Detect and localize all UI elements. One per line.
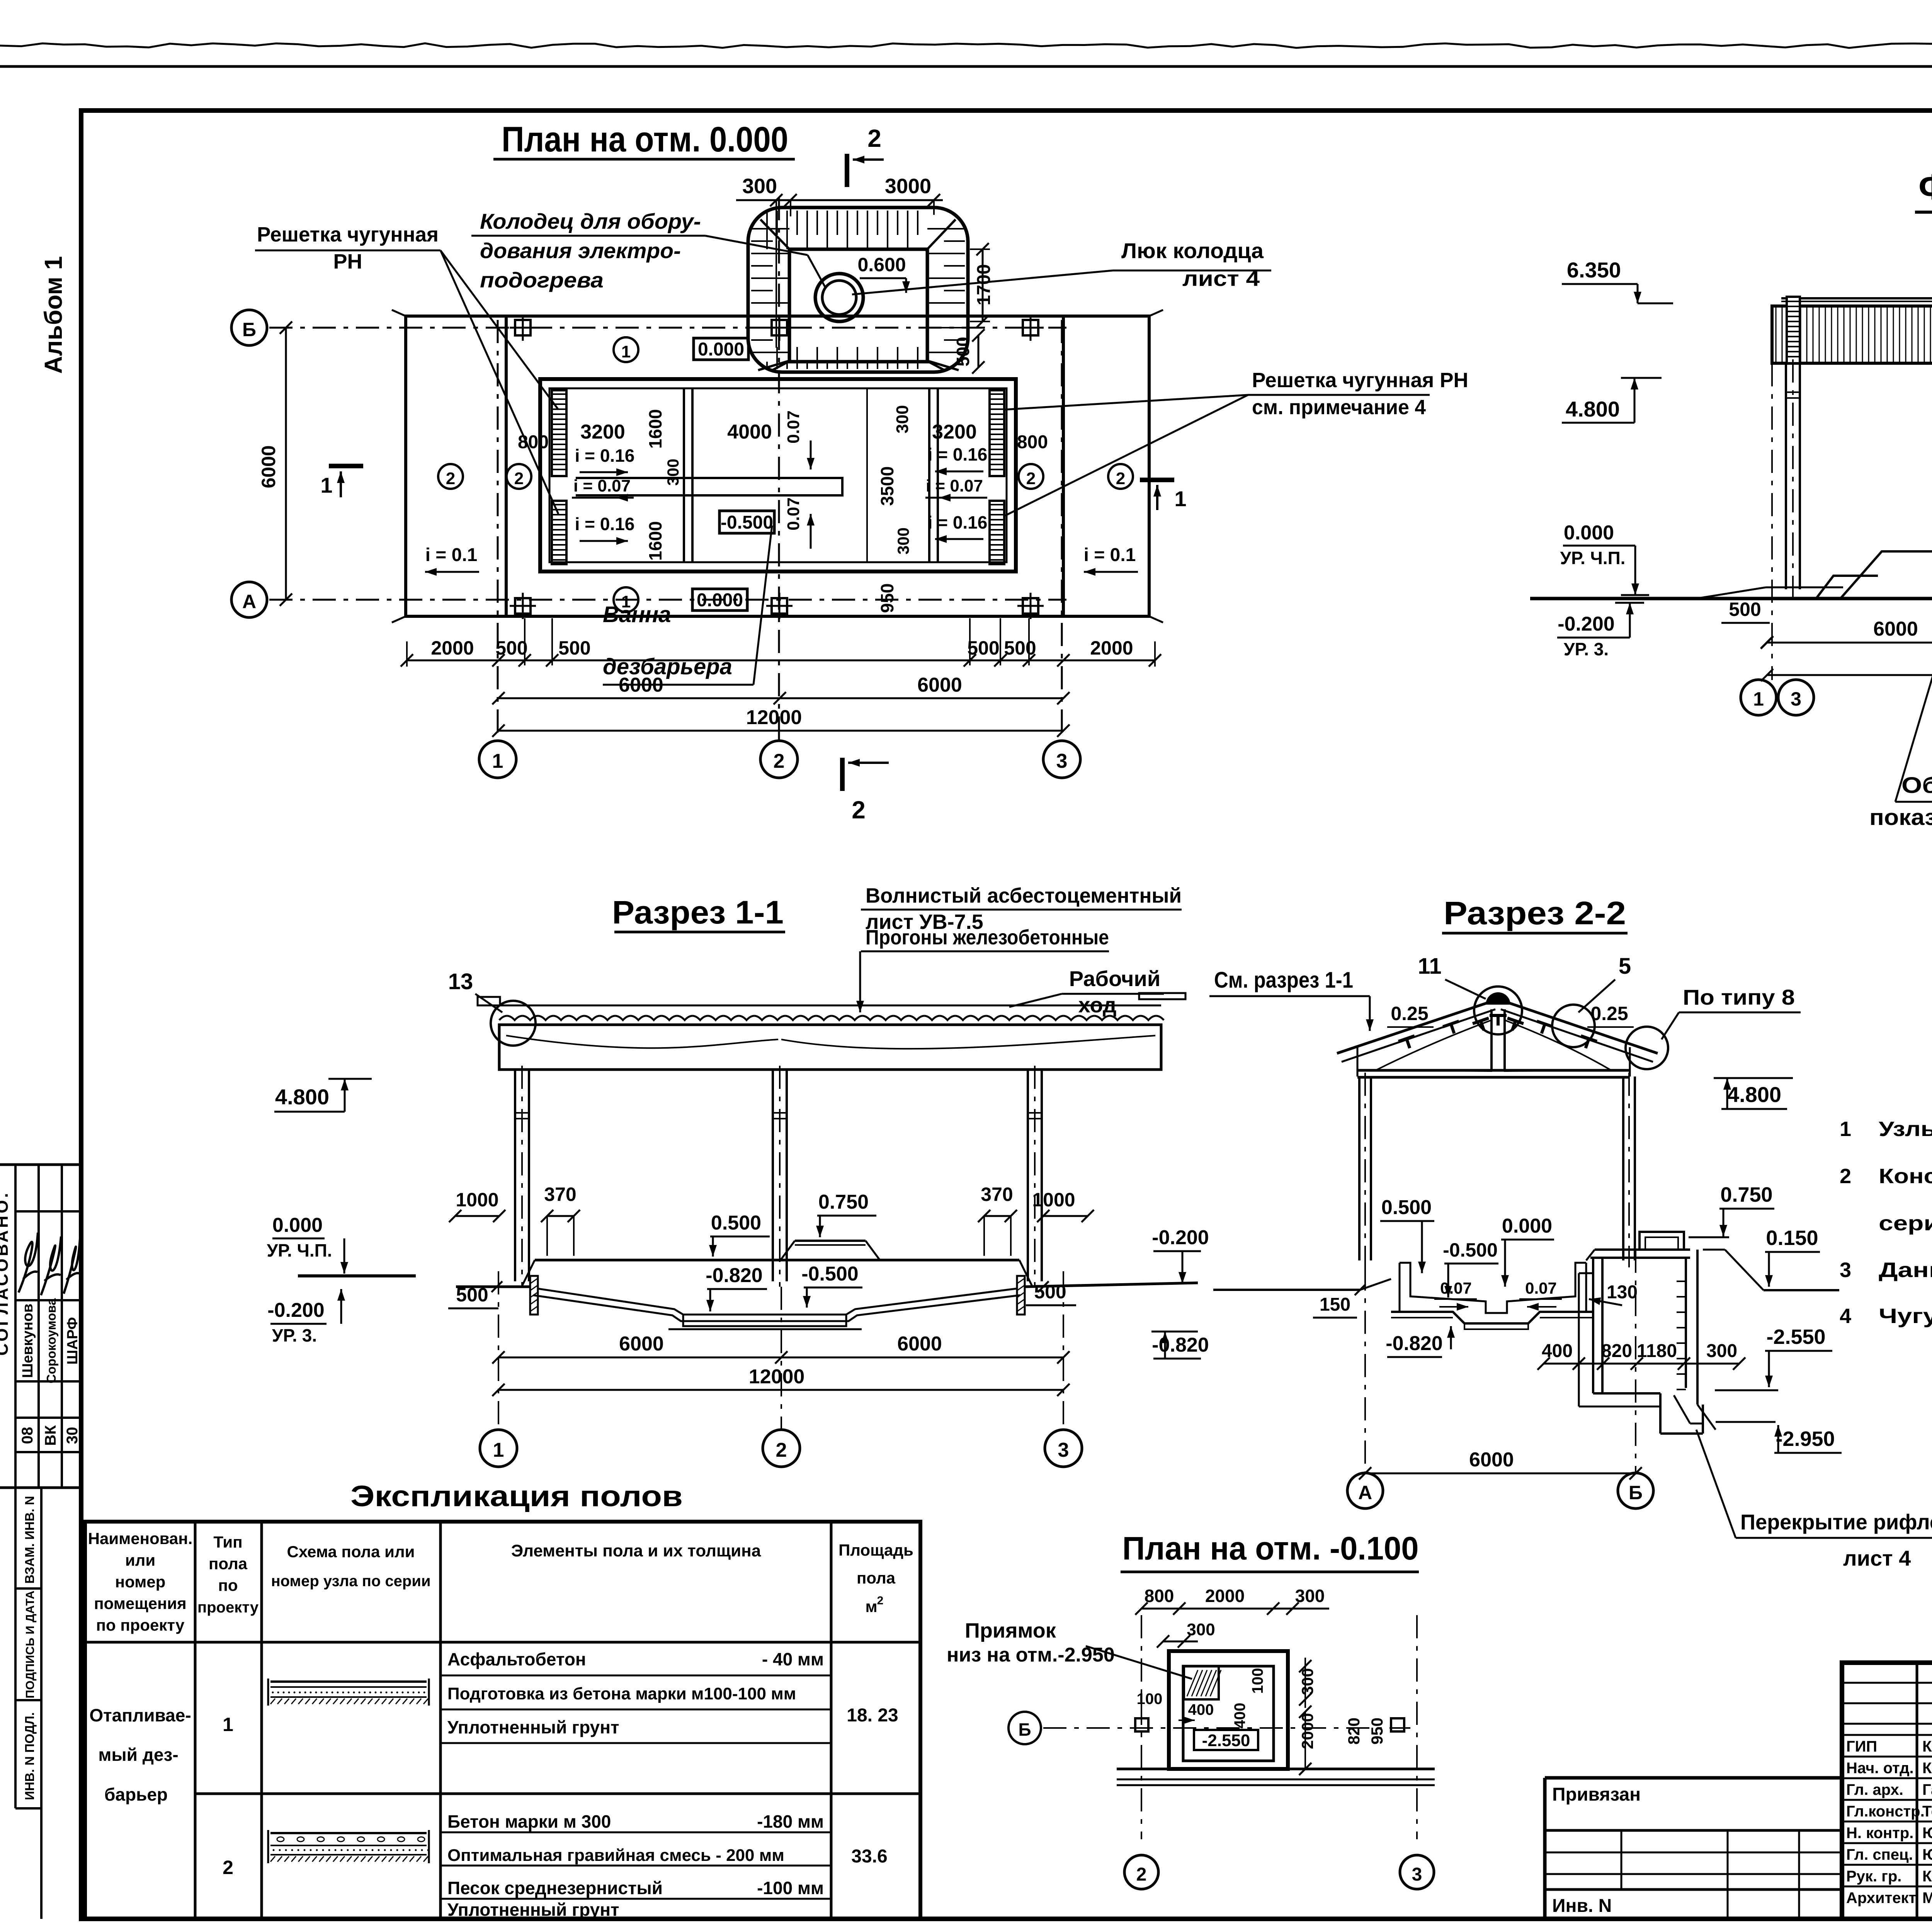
facade berm center [1840, 551, 1932, 599]
axis circle 3 plan [1043, 741, 1080, 778]
canopy slab outline [506, 316, 1063, 616]
svg-text:помещения: помещения [94, 1594, 186, 1612]
slope i=0.16 top-left [575, 446, 635, 476]
node 11 [1418, 954, 1522, 1034]
dim 300 upper-right [893, 405, 912, 433]
inv n label [1552, 1896, 1612, 1916]
svg-text:300: 300 [742, 175, 777, 198]
dim 3200 left [580, 421, 625, 443]
dim 950 vertical [877, 583, 897, 613]
svg-text:3: 3 [1840, 1259, 1851, 1282]
svg-text:500: 500 [967, 637, 999, 659]
slope i=0.16 bottom-right [928, 512, 988, 543]
svg-text:Экспликация полов: Экспликация полов [350, 1480, 683, 1513]
s22 ground right slope [1703, 1250, 1839, 1290]
svg-text:6000: 6000 [1469, 1449, 1514, 1471]
svg-text:-0.500: -0.500 [721, 512, 773, 533]
svg-text:6000: 6000 [619, 1333, 664, 1355]
svg-text:Оптимальная гравийная смесь -: Оптимальная гравийная смесь - 200 мм [447, 1846, 784, 1865]
s11 mark 0.750 [816, 1191, 876, 1237]
svg-text:11: 11 [1418, 954, 1441, 979]
svg-text:Теляковский: Теляковский [1922, 1803, 1932, 1820]
section 1-1 floor and bath profile [456, 1241, 1198, 1329]
s22 mark 0.500 [1380, 1196, 1434, 1273]
svg-text:2: 2 [774, 750, 785, 772]
svg-text:УР. 3.: УР. 3. [272, 1325, 317, 1345]
svg-text:3: 3 [1791, 688, 1801, 710]
s11 dim row 12000 [492, 1366, 1070, 1396]
svg-text:Конструкцию и узлы креплени: Конструкцию и узлы крепления рабочих ход… [1879, 1165, 1932, 1188]
svg-text:- 40 мм: - 40 мм [762, 1649, 824, 1669]
label vanna [603, 526, 772, 685]
facade title [1915, 167, 1932, 212]
s11 mark -0.820 [706, 1264, 767, 1311]
dim 4000 [727, 421, 772, 443]
facade berm left small [1816, 576, 1878, 599]
svg-text:i = 0.16: i = 0.16 [928, 512, 988, 532]
svg-text:6.350: 6.350 [1567, 258, 1621, 282]
section 2-2 equipment well [1579, 1232, 1716, 1434]
section 1-1 column left [515, 1066, 529, 1287]
slope i=0.07 left [572, 476, 634, 502]
section 2-2 title [1442, 895, 1628, 933]
svg-text:0.07: 0.07 [1525, 1279, 1557, 1297]
inv n podl label [22, 1712, 37, 1800]
left ramp slab [392, 310, 506, 622]
svg-text:Разрез 1-1: Разрез 1-1 [612, 894, 784, 930]
well hatch ring [815, 274, 863, 321]
level 6.350 [1562, 258, 1673, 303]
signature sharf [64, 1238, 80, 1294]
s11 mark 0.500 [709, 1212, 770, 1257]
svg-text:дезбарьера: дезбарьера [603, 654, 732, 679]
svg-text:3000: 3000 [885, 175, 931, 198]
svg-text:Рабочий: Рабочий [1069, 966, 1161, 991]
s11 axis circle 1 [480, 1430, 517, 1467]
svg-text:500: 500 [495, 637, 527, 659]
svg-text:i = 0.1: i = 0.1 [425, 545, 478, 565]
svg-text:Схема пола или: Схема пола или [287, 1543, 415, 1561]
right ramp slab [1063, 310, 1163, 622]
svg-text:3: 3 [1412, 1864, 1422, 1885]
s11 axis circle 2 [763, 1430, 800, 1467]
node 13 [448, 969, 536, 1046]
s22 mark -0.820 [1386, 1326, 1455, 1357]
svg-text:1: 1 [320, 473, 332, 497]
name sorokoumova [44, 1298, 58, 1383]
mini plan axis 2 [1124, 1615, 1158, 1889]
svg-text:-0.200: -0.200 [1152, 1226, 1209, 1249]
s11 axis circle 3 [1045, 1430, 1082, 1467]
elevation 0.000 box top [694, 338, 748, 360]
svg-text:по: по [218, 1576, 238, 1594]
svg-text:3: 3 [1058, 1439, 1069, 1461]
s11 dim 500 left [448, 1281, 502, 1308]
dim 3500 right [877, 466, 897, 506]
svg-text:ГИП: ГИП [1846, 1738, 1877, 1755]
facade left post [1787, 297, 1800, 363]
code 30 [64, 1427, 81, 1444]
equipment well plan (wellhead) [748, 207, 968, 372]
s22 mark 0.750 [1689, 1183, 1774, 1237]
bath inner wall [549, 388, 1007, 562]
svg-text:или: или [125, 1551, 155, 1569]
facade ground line [1530, 587, 1932, 599]
left margin lower cells [15, 1488, 41, 1919]
svg-text:i = 0.16: i = 0.16 [575, 446, 635, 466]
svg-text:18. 23: 18. 23 [847, 1705, 898, 1726]
signature shevkunov [19, 1233, 38, 1293]
s22 axis B line [1635, 1250, 1636, 1472]
svg-text:пола: пола [857, 1569, 896, 1587]
title block grid [1842, 1663, 1932, 1919]
type mark 2 right ramp [1108, 464, 1133, 489]
svg-text:i = 0.07: i = 0.07 [926, 476, 983, 495]
expl table title [350, 1480, 683, 1513]
svg-text:1600: 1600 [645, 521, 665, 561]
svg-text:2000: 2000 [1090, 637, 1133, 659]
bath divider left [684, 388, 692, 562]
svg-text:Архитект: Архитект [1846, 1889, 1916, 1906]
section 2-2 bath profile [1213, 1263, 1592, 1329]
note 1 [1840, 1117, 1932, 1141]
svg-text:300: 300 [1298, 1668, 1316, 1695]
svg-text:м: м [865, 1597, 877, 1616]
mini plan top dims [1135, 1586, 1329, 1648]
svg-text:Люк колодца: Люк колодца [1121, 238, 1264, 263]
name shevkunov [20, 1304, 36, 1378]
svg-text:2: 2 [1026, 469, 1036, 488]
svg-text:1600: 1600 [645, 409, 665, 449]
svg-text:Сорокоумова: Сорокоумова [44, 1298, 58, 1383]
svg-text:ВЗАМ. ИНВ. N: ВЗАМ. ИНВ. N [22, 1496, 37, 1583]
svg-text:Шевкунов: Шевкунов [20, 1304, 36, 1378]
svg-text:i = 0.16: i = 0.16 [575, 514, 635, 534]
vzam inv label [22, 1496, 37, 1583]
svg-text:см. примечание 4: см. примечание 4 [1252, 396, 1426, 419]
s11 dim 1000 right [1032, 1189, 1094, 1222]
dim 800 left [518, 432, 549, 452]
label po tipu 8 [1662, 985, 1801, 1039]
svg-text:Песок среднезернистый: Песок среднезернистый [447, 1878, 663, 1898]
node 5 [1552, 954, 1668, 1069]
level 4.800 facade [1562, 378, 1662, 423]
svg-text:30: 30 [64, 1427, 81, 1444]
svg-text:1: 1 [1753, 688, 1764, 710]
svg-text:1: 1 [1840, 1117, 1851, 1141]
svg-text:-2.950: -2.950 [1776, 1427, 1835, 1451]
slope i=0.16 top-right [928, 444, 988, 475]
section 2-2 purlins [1398, 992, 1597, 1051]
dims 300 3000 above wellhead [736, 175, 943, 348]
svg-text:Нач. отд.: Нач. отд. [1846, 1760, 1914, 1777]
signature sorokoumova [41, 1236, 61, 1295]
svg-text:номер: номер [115, 1573, 166, 1591]
note 2 [1840, 1165, 1932, 1235]
s11 axis line 1 [498, 1271, 499, 1430]
dim 0.600 [857, 254, 910, 293]
svg-text:Перекрытие рифленой сталью: Перекрытие рифленой сталью [1740, 1510, 1932, 1534]
bath center rail [576, 478, 842, 495]
svg-text:0.600: 0.600 [857, 254, 906, 276]
svg-text:проекту: проекту [197, 1599, 259, 1616]
s22 mark 0.000 [1501, 1215, 1554, 1287]
svg-text:500: 500 [953, 337, 973, 367]
s22 mark -2.950 [1716, 1422, 1842, 1453]
svg-text:УР. 3.: УР. 3. [1564, 639, 1609, 659]
expl table col1 col2 col5 [89, 1705, 898, 1878]
svg-text:12000: 12000 [746, 706, 802, 729]
s22 dim 6000 [1359, 1449, 1642, 1480]
torn paper top edge [0, 43, 1932, 48]
axis circle 1 plan [479, 741, 516, 778]
svg-text:i = 0.07: i = 0.07 [573, 476, 631, 495]
svg-text:950: 950 [877, 583, 897, 613]
svg-text:Маргулис: Маргулис [1922, 1889, 1932, 1906]
svg-text:-180 мм: -180 мм [757, 1811, 824, 1832]
section mark 2 top [847, 124, 884, 187]
s11 level 0.000 [267, 1214, 416, 1276]
note 3 [1840, 1259, 1932, 1282]
mini plan title [1121, 1530, 1419, 1572]
section 1-1 title [612, 894, 785, 932]
slope i=0.07 right [925, 476, 987, 502]
svg-text:0.07: 0.07 [1440, 1279, 1472, 1297]
svg-text:950: 950 [1368, 1718, 1386, 1745]
svg-text:13: 13 [448, 969, 473, 994]
svg-text:820: 820 [1601, 1341, 1632, 1361]
mini plan well [1169, 1651, 1288, 1769]
svg-text:2: 2 [867, 124, 881, 152]
s22 dim 130 [1589, 1282, 1638, 1305]
svg-text:Прогоны железобетонные: Прогоны железобетонные [866, 926, 1109, 949]
elevation -0.500 box [719, 511, 774, 533]
svg-text:370: 370 [544, 1184, 576, 1205]
svg-text:А: А [1358, 1482, 1372, 1503]
grate RN bottom-left [552, 501, 566, 564]
svg-text:Чугунная решетка РН т.п: Чугунная решетка РН т.п. 902-9-1 вып. VI… [1879, 1304, 1932, 1328]
svg-text:-0.500: -0.500 [801, 1263, 858, 1285]
slope i=0.1 left [425, 545, 479, 576]
svg-text:Б: Б [1629, 1482, 1643, 1503]
svg-text:2: 2 [446, 469, 455, 488]
svg-text:08: 08 [19, 1427, 36, 1444]
svg-text:2000: 2000 [1205, 1586, 1245, 1606]
svg-text:СОГЛАСОВАНО.: СОГЛАСОВАНО. [0, 1191, 12, 1356]
name sharf [65, 1317, 81, 1365]
dim 300 mid-left [664, 459, 682, 486]
mini plan column left [1135, 1718, 1148, 1731]
note 4 [1840, 1304, 1932, 1420]
svg-text:2: 2 [877, 1594, 884, 1607]
svg-text:i = 0.16: i = 0.16 [928, 444, 988, 464]
svg-text:Асфальтобетон: Асфальтобетон [447, 1649, 586, 1669]
svg-text:Н. контр.: Н. контр. [1846, 1825, 1913, 1842]
svg-text:0.150: 0.150 [1766, 1226, 1818, 1250]
expl table header [88, 1529, 913, 1634]
svg-text:Гаврилов: Гаврилов [1922, 1781, 1932, 1798]
label volnisty list [856, 884, 1182, 1012]
svg-text:2: 2 [1116, 469, 1125, 488]
svg-text:пола: пола [209, 1554, 248, 1573]
svg-text:Фасад 1-3, 3-1: Фасад 1-3, 3-1 [1918, 167, 1932, 207]
svg-text:0.000: 0.000 [698, 339, 744, 360]
svg-text:Альбом 1: Альбом 1 [39, 256, 67, 374]
left margin approval table [0, 1165, 81, 1488]
svg-text:500: 500 [1729, 599, 1761, 620]
svg-text:0.07: 0.07 [784, 497, 803, 531]
svg-text:дования электро-: дования электро- [480, 238, 681, 263]
axis circle B [231, 310, 267, 345]
svg-text:2000: 2000 [431, 637, 474, 659]
svg-text:Ким: Ким [1922, 1760, 1932, 1777]
axis A horizontal [269, 599, 1066, 601]
svg-text:1180: 1180 [1637, 1341, 1677, 1361]
mini plan column right [1391, 1718, 1404, 1731]
svg-text:Гл. спец.: Гл. спец. [1846, 1846, 1913, 1863]
plan dim row 6000 [492, 674, 1070, 704]
label obvalovanie [1869, 589, 1932, 830]
svg-text:Площадь: Площадь [838, 1541, 913, 1559]
leader to hatch label [852, 270, 1113, 294]
svg-text:2: 2 [1136, 1864, 1147, 1885]
axis 2 vertical plan [778, 197, 780, 741]
s22 slope 0.07 left [1434, 1279, 1477, 1311]
section 1-1 walkway right [1139, 993, 1185, 999]
room mark 1 bottom [614, 587, 638, 612]
svg-text:2000: 2000 [1298, 1713, 1316, 1749]
section 2-2 column left [1359, 1073, 1371, 1267]
dim 3200 right [932, 421, 977, 443]
s22 axis circle A [1347, 1473, 1383, 1509]
svg-text:серии 2.460-1 вып. 1.: серии 2.460-1 вып. 1. [1879, 1212, 1932, 1235]
svg-text:6000: 6000 [897, 1333, 942, 1355]
slope i=0.1 right [1084, 545, 1138, 576]
mini plan axis B [1009, 1712, 1410, 1744]
mini plan axis 3 [1400, 1615, 1434, 1889]
svg-text:800: 800 [1145, 1586, 1174, 1606]
bath divider right [929, 388, 938, 562]
svg-text:2: 2 [514, 469, 524, 488]
section 1-1 column right [1028, 1066, 1042, 1287]
svg-text:ПОДПИСЬ И ДАТА: ПОДПИСЬ И ДАТА [23, 1590, 37, 1698]
svg-text:0.25: 0.25 [1590, 1003, 1628, 1024]
expl table grid [85, 1522, 920, 1919]
s11 axis line 2 [781, 1287, 782, 1430]
slope 0.25 right [1587, 1003, 1634, 1027]
facade column left [1786, 359, 1800, 597]
facade corrugated roof band [1772, 298, 1932, 363]
svg-text:ход: ход [1078, 993, 1117, 1017]
svg-text:А: А [242, 591, 256, 612]
svg-text:по проекту: по проекту [96, 1616, 185, 1634]
bath outer wall [540, 379, 1016, 571]
svg-text:Привязан: Привязан [1552, 1784, 1641, 1805]
svg-text:0.000: 0.000 [1564, 522, 1614, 544]
plan dim row 12000 [492, 706, 1070, 737]
s11 dim 370 right [978, 1184, 1017, 1256]
svg-text:2: 2 [223, 1857, 233, 1878]
s11 dim 370 left [541, 1184, 580, 1256]
svg-text:100: 100 [1137, 1690, 1163, 1708]
svg-text:12000: 12000 [749, 1366, 805, 1388]
elevation 0.000 box bottom [692, 589, 747, 611]
grate RN bottom-right [990, 501, 1004, 564]
s11 dim 1000 left [449, 1189, 505, 1222]
svg-text:-0.820: -0.820 [1152, 1334, 1209, 1356]
svg-text:370: 370 [981, 1184, 1013, 1205]
svg-text:Гл. арх.: Гл. арх. [1846, 1781, 1903, 1798]
svg-text:Элементы пола и их толщин: Элементы пола и их толщина [511, 1541, 761, 1560]
svg-text:подогрева: подогрева [480, 268, 604, 292]
s22 axis circle B [1618, 1473, 1653, 1509]
section 1-1 roof [499, 1005, 1164, 1070]
svg-text:УР. Ч.П.: УР. Ч.П. [267, 1240, 332, 1260]
label kolodec [471, 209, 825, 292]
svg-text:820: 820 [1345, 1718, 1363, 1745]
dim 1600 lower-left [645, 521, 665, 561]
svg-text:300: 300 [1295, 1586, 1325, 1606]
code vk [42, 1425, 59, 1446]
room mark 1 top [614, 337, 638, 362]
svg-text:130: 130 [1607, 1282, 1638, 1303]
dim 500 wellhead [953, 329, 985, 374]
privyazan label [1552, 1784, 1641, 1805]
svg-text:0.000: 0.000 [1502, 1215, 1552, 1237]
svg-text:-100 мм: -100 мм [757, 1878, 824, 1898]
svg-text:2: 2 [852, 796, 866, 824]
facade dim row 6000 [1761, 618, 1932, 649]
axis circle 2 plan [760, 741, 798, 778]
dim 800 right [1017, 432, 1048, 452]
s11 level -0.820 right [1151, 1332, 1209, 1359]
plan title [493, 120, 795, 159]
svg-text:300: 300 [894, 527, 912, 554]
s11 mark -0.500 [801, 1263, 862, 1308]
svg-text:0.750: 0.750 [1720, 1183, 1772, 1206]
svg-text:Уплотненный грунт: Уплотненный грунт [447, 1717, 619, 1737]
type mark 2 left ramp [438, 464, 463, 489]
section 1-1 walkway left [478, 997, 500, 1005]
svg-text:План на отм. 0.000: План на отм. 0.000 [502, 120, 788, 159]
slope 0.25 left [1387, 1003, 1434, 1027]
svg-text:Б: Б [1018, 1719, 1031, 1740]
s22 axis A line [1364, 1267, 1366, 1472]
svg-text:Котляр: Котляр [1922, 1868, 1932, 1885]
svg-text:Обвалование колодца: Обвалование колодца [1901, 773, 1932, 798]
svg-text:i = 0.1: i = 0.1 [1084, 545, 1136, 565]
svg-text:мый дез-: мый дез- [98, 1745, 178, 1765]
svg-text:Подготовка из бетона марки м10: Подготовка из бетона марки м100-100 мм [447, 1684, 796, 1703]
album label [39, 256, 67, 374]
svg-text:33.6: 33.6 [851, 1846, 887, 1867]
svg-text:4: 4 [1840, 1304, 1851, 1328]
svg-text:РН: РН [333, 250, 362, 273]
svg-text:1: 1 [1174, 486, 1186, 511]
svg-text:6000: 6000 [917, 674, 962, 696]
svg-text:1: 1 [492, 750, 503, 772]
svg-text:По типу 8: По типу 8 [1683, 985, 1795, 1009]
svg-text:-2.550: -2.550 [1202, 1731, 1250, 1750]
svg-text:Наименован.: Наименован. [88, 1529, 193, 1548]
svg-text:номер узла по серии: номер узла по серии [271, 1573, 430, 1590]
svg-text:План на отм. -0.100: План на отм. -0.100 [1122, 1530, 1419, 1566]
s11 dim row 6000 [492, 1333, 1070, 1364]
svg-text:4000: 4000 [727, 421, 772, 443]
svg-text:-2.550: -2.550 [1766, 1325, 1825, 1349]
svg-text:лист 4: лист 4 [1843, 1546, 1911, 1570]
s11 axis line 3 [1063, 1271, 1064, 1430]
